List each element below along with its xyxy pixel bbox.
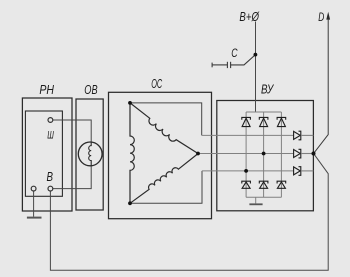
svg-text:В+Ø: В+Ø: [239, 9, 259, 24]
svg-text:С: С: [231, 47, 238, 60]
svg-text:РН: РН: [39, 82, 54, 97]
svg-text:ВУ: ВУ: [261, 82, 274, 97]
svg-text:Ш: Ш: [47, 129, 54, 141]
svg-text:В: В: [47, 169, 54, 184]
svg-text:ОС: ОС: [151, 77, 163, 91]
svg-text:ОВ: ОВ: [84, 82, 98, 97]
svg-text:D: D: [318, 10, 324, 24]
